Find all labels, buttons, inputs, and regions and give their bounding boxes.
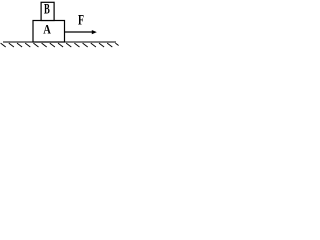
svg-text:B: B [44, 2, 50, 18]
svg-text:F: F [78, 13, 84, 29]
svg-text:A: A [43, 23, 51, 37]
